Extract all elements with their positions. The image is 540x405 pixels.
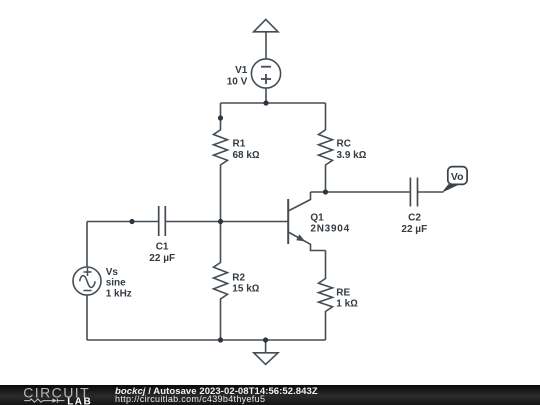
svg-text:Vo: Vo — [451, 171, 464, 183]
svg-text:sine: sine — [106, 278, 126, 289]
svg-text:R1: R1 — [233, 138, 246, 149]
svg-text:68 kΩ: 68 kΩ — [233, 150, 260, 161]
svg-text:15 kΩ: 15 kΩ — [232, 284, 259, 295]
svg-text:C2: C2 — [408, 213, 421, 224]
svg-text:V1: V1 — [235, 65, 248, 76]
svg-text:R2: R2 — [232, 272, 245, 283]
svg-text:10 V: 10 V — [227, 77, 248, 88]
svg-text:RE: RE — [336, 287, 350, 298]
svg-text:22 µF: 22 µF — [401, 224, 427, 235]
svg-text:Q1: Q1 — [310, 213, 324, 224]
svg-text:http://circuitlab.com/c439b4th: http://circuitlab.com/c439b4thyefu5 — [115, 394, 265, 404]
svg-text:3.9 kΩ: 3.9 kΩ — [337, 150, 367, 161]
svg-text:1 kΩ: 1 kΩ — [336, 298, 358, 309]
svg-text:RC: RC — [337, 138, 351, 149]
svg-text:22 µF: 22 µF — [149, 253, 175, 264]
svg-text:1 kHz: 1 kHz — [106, 289, 132, 300]
svg-text:2N3904: 2N3904 — [310, 224, 350, 235]
svg-text:Vs: Vs — [106, 267, 119, 278]
svg-text:C1: C1 — [156, 242, 169, 253]
svg-text:LAB: LAB — [67, 396, 92, 405]
